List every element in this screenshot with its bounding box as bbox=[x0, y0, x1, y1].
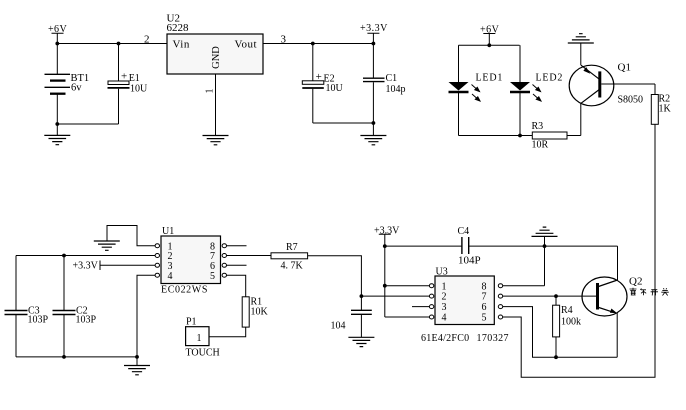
svg-text:R4: R4 bbox=[561, 305, 573, 316]
svg-text:10U: 10U bbox=[130, 84, 148, 95]
svg-text:1: 1 bbox=[197, 333, 202, 344]
svg-text:Vout: Vout bbox=[235, 39, 258, 51]
svg-text:U3: U3 bbox=[436, 267, 448, 278]
svg-text:4: 4 bbox=[168, 271, 173, 282]
svg-text:Q1: Q1 bbox=[618, 62, 631, 74]
svg-text:Q2: Q2 bbox=[629, 276, 642, 288]
svg-text:1K: 1K bbox=[659, 104, 672, 115]
svg-text:EC022WS: EC022WS bbox=[161, 285, 208, 296]
svg-text:+: + bbox=[316, 71, 322, 83]
svg-text:170327: 170327 bbox=[477, 333, 509, 344]
svg-text:Vin: Vin bbox=[173, 39, 190, 51]
svg-text:5: 5 bbox=[482, 313, 487, 324]
svg-text:+6V: +6V bbox=[48, 24, 67, 35]
svg-text:8: 8 bbox=[482, 281, 487, 292]
svg-text:5: 5 bbox=[210, 271, 215, 282]
svg-text:R3: R3 bbox=[532, 121, 544, 132]
svg-text:61E4/2FC0: 61E4/2FC0 bbox=[421, 333, 469, 344]
svg-text:6v: 6v bbox=[71, 83, 82, 94]
svg-text:3: 3 bbox=[442, 302, 447, 313]
svg-text:4. 7K: 4. 7K bbox=[281, 261, 304, 272]
svg-text:+3.3V: +3.3V bbox=[73, 261, 99, 272]
svg-text:LED1: LED1 bbox=[476, 73, 504, 84]
svg-text:TOUCH: TOUCH bbox=[186, 348, 220, 359]
svg-text:103P: 103P bbox=[28, 315, 49, 326]
svg-text:+3.3V: +3.3V bbox=[360, 23, 388, 34]
svg-text:2: 2 bbox=[442, 292, 447, 303]
svg-text:1: 1 bbox=[442, 281, 447, 292]
svg-text:GND: GND bbox=[211, 46, 222, 69]
svg-text:104: 104 bbox=[331, 321, 346, 332]
svg-text:6: 6 bbox=[482, 302, 487, 313]
svg-text:1: 1 bbox=[205, 89, 216, 94]
svg-text:R7: R7 bbox=[286, 242, 298, 253]
svg-text:+6V: +6V bbox=[480, 25, 500, 36]
svg-text:P1: P1 bbox=[186, 317, 197, 328]
svg-text:C4: C4 bbox=[458, 226, 470, 237]
svg-text:7: 7 bbox=[482, 292, 487, 303]
svg-text:10R: 10R bbox=[532, 140, 549, 151]
svg-text:+: + bbox=[121, 70, 127, 82]
svg-text:3: 3 bbox=[281, 34, 287, 46]
svg-text:2: 2 bbox=[144, 34, 150, 46]
svg-text:10K: 10K bbox=[251, 307, 269, 318]
svg-text:S8050: S8050 bbox=[618, 95, 644, 106]
svg-text:104p: 104p bbox=[386, 84, 406, 95]
svg-text:C1: C1 bbox=[386, 73, 398, 84]
svg-text:103P: 103P bbox=[76, 315, 97, 326]
svg-text:6228: 6228 bbox=[167, 22, 190, 34]
svg-text:100k: 100k bbox=[561, 317, 581, 328]
svg-text:LED2: LED2 bbox=[536, 73, 564, 84]
svg-text:U1: U1 bbox=[162, 226, 174, 237]
svg-text:+3.3V: +3.3V bbox=[374, 226, 400, 237]
svg-text:4: 4 bbox=[442, 313, 447, 324]
svg-text:104P: 104P bbox=[458, 255, 481, 267]
svg-text:10U: 10U bbox=[326, 83, 344, 94]
svg-text:E1: E1 bbox=[129, 73, 140, 84]
